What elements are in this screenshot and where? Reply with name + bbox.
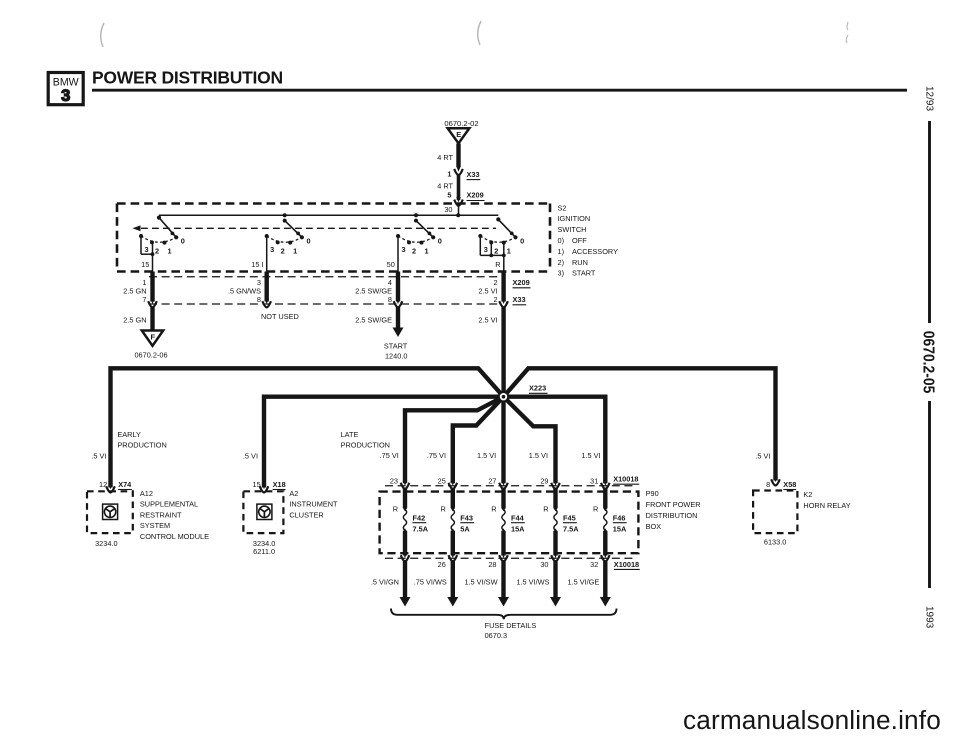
- power source arrow E (from 0670.2-02): [444, 119, 478, 144]
- page margin scan marks: [101, 21, 848, 47]
- svg-text:15: 15: [253, 480, 261, 489]
- P90 labels: [646, 489, 701, 531]
- svg-text:LATE: LATE: [341, 430, 359, 439]
- svg-text:F44: F44: [511, 513, 525, 522]
- svg-text:R: R: [543, 504, 548, 513]
- svg-text:1.5 VI/WS: 1.5 VI/WS: [516, 578, 549, 587]
- connector X10018 pin 25: [438, 476, 457, 489]
- wire from wafer R to terminal R: [480, 236, 505, 272]
- wire .75 VI run to fuse F42 pin 23: [405, 397, 504, 484]
- svg-text:0: 0: [307, 236, 311, 245]
- instrument cluster A2 box: [243, 491, 283, 533]
- control module A12 box: [87, 491, 133, 533]
- svg-text:5A: 5A: [460, 525, 470, 534]
- title POWER DISTRIBUTION: [92, 68, 907, 91]
- svg-text:OFF: OFF: [572, 236, 587, 245]
- svg-text:2.5 SW/GE: 2.5 SW/GE: [355, 287, 392, 296]
- svg-text:X18: X18: [273, 480, 286, 489]
- svg-text:SYSTEM: SYSTEM: [140, 521, 170, 530]
- svg-text:8: 8: [257, 295, 261, 304]
- svg-text:NOT USED: NOT USED: [261, 312, 299, 321]
- svg-text:1: 1: [447, 170, 451, 179]
- wire 1.5 VI/GE to fuse details: [567, 553, 610, 607]
- fuse F45 7.5A: [543, 488, 579, 556]
- connector X74 pin 12: [99, 480, 132, 493]
- svg-text:.5 VI: .5 VI: [243, 452, 258, 461]
- ignition switch S2 dashed box: [117, 204, 550, 272]
- production notes: [117, 430, 390, 450]
- wire 2.5 GN to fuse link F: [123, 307, 152, 330]
- ignition switch wafer terminal R: [478, 217, 524, 255]
- svg-text:2: 2: [494, 246, 498, 255]
- svg-text:15: 15: [141, 260, 149, 269]
- wire from wafer 50 to terminal 50: [387, 236, 398, 272]
- svg-text:R: R: [593, 504, 598, 513]
- wire .5 GN/WS through X209/X33, pins 3/8: [228, 272, 271, 308]
- svg-text:X209: X209: [467, 191, 484, 200]
- svg-text:0670.3: 0670.3: [485, 631, 507, 640]
- right margin rail line lower: [928, 401, 931, 588]
- svg-text:R: R: [393, 504, 398, 513]
- svg-text:F45: F45: [563, 513, 576, 522]
- A12 labels: [95, 489, 209, 548]
- svg-text:2): 2): [558, 258, 565, 267]
- svg-text:F43: F43: [460, 513, 473, 522]
- svg-text:1.5 VI/GE: 1.5 VI/GE: [567, 578, 599, 587]
- wire feed into box (terminal 30): [444, 204, 458, 216]
- wire .5 VI run to A12 (early production): [111, 368, 504, 487]
- svg-text:2: 2: [494, 295, 498, 304]
- wire 2.5 VI through X209/X33, pins 2/2: [478, 272, 508, 308]
- svg-text:27: 27: [488, 476, 496, 485]
- connector X209 pin 5: [447, 191, 484, 206]
- svg-text:F: F: [150, 332, 155, 341]
- svg-text:A2: A2: [289, 489, 298, 498]
- svg-text:START: START: [572, 269, 596, 278]
- svg-text:15A: 15A: [613, 525, 627, 534]
- svg-text:3234.0: 3234.0: [95, 539, 117, 548]
- svg-text:4 RT: 4 RT: [437, 182, 453, 191]
- wire .5 VI run to K2 horn relay: [504, 368, 776, 480]
- ignition switch wafer terminal 15: [139, 216, 185, 256]
- svg-text:15 I: 15 I: [251, 260, 263, 269]
- svg-text:X33: X33: [513, 295, 526, 304]
- connector X58 pin 8: [766, 477, 796, 490]
- svg-text:CLUSTER: CLUSTER: [289, 510, 323, 519]
- svg-text:23: 23: [390, 476, 398, 485]
- svg-text:2.5 SW/GE: 2.5 SW/GE: [355, 316, 392, 325]
- connector X18 pin 15: [253, 480, 286, 493]
- wire .75 VI/WS to fuse details: [414, 553, 459, 607]
- svg-text:3: 3: [144, 245, 148, 254]
- connector X10018 pin 23: [390, 476, 409, 489]
- svg-text:IGNITION: IGNITION: [558, 214, 591, 223]
- svg-text:FRONT POWER: FRONT POWER: [646, 500, 701, 509]
- svg-text:7: 7: [142, 295, 146, 304]
- svg-text:0: 0: [438, 236, 442, 245]
- svg-text:1: 1: [507, 247, 511, 256]
- wire 2.5 SW/GE through X209/X33, pins 4/8: [355, 272, 402, 308]
- A12 module icon: [103, 504, 118, 519]
- ignition switch wafer terminal 50: [396, 213, 442, 255]
- ignition switch wafer terminal 15I: [265, 213, 311, 255]
- svg-text:30: 30: [444, 205, 452, 214]
- svg-text:0): 0): [558, 236, 565, 245]
- svg-text:1): 1): [558, 247, 565, 256]
- wire 2.5 GN through X209/X33, pins 1/7: [123, 272, 157, 308]
- wire 4 RT from E to X33: [437, 144, 458, 167]
- fuse F46 15A: [593, 488, 627, 556]
- svg-text:START: START: [384, 342, 408, 351]
- svg-text:2.5 GN: 2.5 GN: [123, 316, 146, 325]
- svg-text:5: 5: [447, 191, 451, 200]
- svg-text:X33: X33: [467, 170, 480, 179]
- connector X10018 pin 27: [488, 476, 507, 489]
- svg-text:1: 1: [424, 247, 428, 256]
- svg-text:K2: K2: [803, 490, 812, 499]
- svg-text:3: 3: [270, 245, 274, 254]
- svg-text:1.5 VI: 1.5 VI: [581, 451, 600, 460]
- connector row X10018 lower (dashed): [385, 558, 640, 569]
- svg-text:CONTROL MODULE: CONTROL MODULE: [140, 532, 209, 541]
- connector X33 pin 1: [447, 166, 480, 179]
- svg-text:3: 3: [61, 87, 70, 105]
- horn relay K2 box: [753, 491, 797, 534]
- svg-text:12: 12: [99, 480, 107, 489]
- svg-text:X10018: X10018: [613, 475, 638, 484]
- svg-text:PRODUCTION: PRODUCTION: [117, 441, 166, 450]
- wire 4 RT from X33 to X209: [437, 175, 458, 201]
- terminal 30 bus inside S2: [159, 213, 498, 217]
- svg-text:RUN: RUN: [572, 258, 588, 267]
- svg-text:31: 31: [590, 476, 598, 485]
- A2 module icon: [257, 504, 272, 519]
- svg-text:F46: F46: [613, 513, 626, 522]
- svg-text:28: 28: [488, 560, 496, 569]
- svg-text:X58: X58: [783, 480, 796, 489]
- svg-text:.5 VI: .5 VI: [91, 452, 106, 461]
- K2 labels: [764, 490, 851, 546]
- connector X10018 pin 29: [540, 476, 559, 489]
- wire 1.5 VI/SW to fuse details: [464, 553, 509, 607]
- wire 1.5 VI run to fuse F44 pin 27: [501, 397, 505, 484]
- wire 2.5 SW/GE to START: [355, 307, 408, 361]
- svg-text:INSTRUMENT: INSTRUMENT: [289, 500, 338, 509]
- svg-text:25: 25: [438, 476, 446, 485]
- svg-text:X209: X209: [513, 278, 530, 287]
- S2 legend text: [558, 203, 619, 277]
- svg-text:7.5A: 7.5A: [413, 525, 429, 534]
- connector row X10018 upper (dashed): [385, 475, 639, 486]
- svg-text:S2: S2: [558, 203, 567, 212]
- splice node X223: [498, 384, 548, 403]
- svg-text:6211.0: 6211.0: [253, 547, 275, 556]
- svg-text:1993: 1993: [924, 606, 935, 629]
- wire 1.5 VI run to fuse F46 pin 31: [504, 397, 606, 484]
- svg-text:1: 1: [167, 247, 171, 256]
- svg-text:A12: A12: [140, 489, 153, 498]
- svg-text:6133.0: 6133.0: [764, 537, 786, 546]
- svg-text:0670.2-06: 0670.2-06: [134, 351, 167, 360]
- svg-text:SUPPLEMENTAL: SUPPLEMENTAL: [140, 500, 198, 509]
- svg-text:15A: 15A: [511, 525, 525, 534]
- svg-text:8: 8: [766, 480, 770, 489]
- wire from wafer 15 to terminal 15: [141, 236, 154, 272]
- svg-text:32: 32: [590, 560, 598, 569]
- svg-text:2.5 VI: 2.5 VI: [478, 316, 497, 325]
- svg-text:4 RT: 4 RT: [437, 153, 453, 162]
- right margin rail line upper: [928, 121, 931, 323]
- wire .5 VI run to A2: [264, 397, 504, 488]
- svg-text:EARLY: EARLY: [117, 430, 141, 439]
- svg-text:RESTRAINT: RESTRAINT: [140, 510, 182, 519]
- svg-text:30: 30: [540, 560, 548, 569]
- wire 1.5 VI/WS to fuse details: [516, 553, 561, 607]
- svg-text:2: 2: [412, 246, 416, 255]
- svg-text:0670.2-02: 0670.2-02: [444, 119, 478, 128]
- wire 1.5 VI run to fuse F45 pin 29: [504, 397, 556, 484]
- svg-text:1.5 VI: 1.5 VI: [529, 451, 548, 460]
- svg-text:1: 1: [293, 247, 297, 256]
- connector row X33 (dashed): [149, 295, 526, 305]
- fuse F44 15A: [491, 488, 525, 556]
- fuse F42 7.5A: [393, 488, 429, 556]
- svg-text:26: 26: [438, 560, 446, 569]
- svg-text:X10018: X10018: [614, 560, 639, 569]
- switch position linkage dashed line with arrow: [133, 225, 497, 231]
- wire .75 VI run to fuse F43 pin 25: [453, 397, 504, 484]
- power arrow F (to 0670.2-06): [134, 331, 167, 360]
- svg-text:1.5 VI: 1.5 VI: [477, 451, 496, 460]
- svg-text:PRODUCTION: PRODUCTION: [341, 441, 390, 450]
- svg-text:R: R: [495, 260, 500, 269]
- connector X10018 pin 31: [590, 476, 609, 489]
- svg-text:ACCESSORY: ACCESSORY: [572, 247, 618, 256]
- fuse box P90 dashed border: [380, 492, 639, 554]
- svg-text:2: 2: [155, 246, 159, 255]
- svg-text:R: R: [491, 504, 496, 513]
- svg-text:FUSE DETAILS: FUSE DETAILS: [485, 621, 537, 630]
- svg-text:0670.2-05: 0670.2-05: [920, 331, 937, 394]
- svg-text:3): 3): [558, 269, 565, 278]
- svg-text:.5 VI/GN: .5 VI/GN: [371, 578, 399, 587]
- svg-text:X223: X223: [529, 384, 546, 393]
- wire 2.5 VI to splice X223: [478, 307, 503, 397]
- wire .5 VI/GN to fuse details: [371, 553, 411, 607]
- svg-text:DISTRIBUTION: DISTRIBUTION: [646, 511, 698, 520]
- svg-text:.5 VI: .5 VI: [755, 452, 770, 461]
- svg-text:.75 VI: .75 VI: [427, 451, 446, 460]
- svg-text:8: 8: [388, 295, 392, 304]
- svg-text:0: 0: [520, 236, 524, 245]
- svg-text:50: 50: [387, 260, 395, 269]
- svg-text:2: 2: [281, 246, 285, 255]
- svg-text:carmanualsonline.info: carmanualsonline.info: [683, 705, 941, 735]
- svg-text:R: R: [440, 504, 445, 513]
- svg-text:F42: F42: [413, 513, 426, 522]
- svg-text:X74: X74: [118, 480, 132, 489]
- svg-text:HORN RELAY: HORN RELAY: [803, 501, 850, 510]
- wire colour labels: [91, 451, 770, 461]
- svg-text:POWER DISTRIBUTION: POWER DISTRIBUTION: [92, 68, 283, 88]
- svg-text:P90: P90: [646, 489, 659, 498]
- svg-text:7.5A: 7.5A: [563, 525, 579, 534]
- svg-text:0: 0: [181, 236, 185, 245]
- svg-text:.75 VI: .75 VI: [380, 451, 399, 460]
- svg-text:SWITCH: SWITCH: [558, 225, 587, 234]
- svg-text:29: 29: [540, 476, 548, 485]
- A2 labels: [253, 489, 338, 556]
- wire from wafer 15I to terminal 15 I: [251, 236, 266, 272]
- svg-text:1.5 VI/SW: 1.5 VI/SW: [464, 578, 497, 587]
- svg-text:3: 3: [484, 245, 488, 254]
- svg-text:3: 3: [401, 245, 405, 254]
- fuse details brace: [391, 609, 617, 640]
- fuse F43 5A: [440, 488, 474, 556]
- connector row X209 (dashed): [149, 277, 531, 288]
- svg-text:12/93: 12/93: [924, 86, 935, 111]
- svg-text:BOX: BOX: [646, 522, 662, 531]
- svg-text:E: E: [456, 130, 461, 139]
- svg-text:.75 VI/WS: .75 VI/WS: [414, 578, 447, 587]
- svg-text:1240.0: 1240.0: [385, 352, 407, 361]
- header BMW 3 logo: [48, 73, 83, 105]
